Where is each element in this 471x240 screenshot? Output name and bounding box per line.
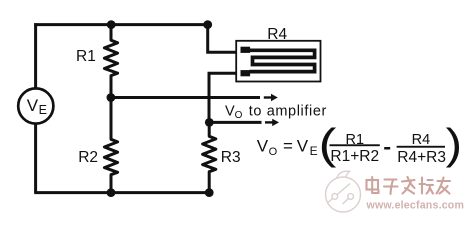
voltage source VE: [18, 88, 53, 123]
svg-text:V: V: [257, 137, 269, 156]
svg-text:E: E: [310, 144, 318, 158]
svg-text:V: V: [297, 137, 309, 156]
wire: gauge top feed: [208, 25, 242, 53]
junction dot: top rail / R1: [107, 20, 116, 29]
svg-text:O: O: [235, 110, 243, 121]
arrow 2: [265, 121, 273, 123]
junction dot: R3 bottom: [205, 188, 214, 197]
arrow 1: [264, 96, 272, 98]
junction dot: R3 top node: [205, 118, 214, 127]
svg-text:O: O: [269, 146, 278, 158]
strain gauge R4 bottom pad: [241, 70, 251, 76]
junction dot: R2 bottom: [107, 188, 116, 197]
strain gauge R4 top pad: [241, 47, 251, 53]
junction dot: top rail end / gauge feed: [203, 20, 212, 29]
resistor R3: [203, 122, 216, 192]
strain gauge R4 serpentine: [250, 50, 315, 71]
svg-text:to amplifier: to amplifier: [249, 103, 327, 119]
svg-text:V: V: [225, 103, 235, 119]
svg-text:R2: R2: [78, 149, 98, 166]
svg-text:www.elecfans.com: www.elecfans.com: [366, 200, 465, 212]
svg-text:R4: R4: [267, 26, 287, 43]
svg-text:): ): [446, 120, 462, 168]
wire: bottom rail: [34, 191, 209, 194]
wire: VO wire 1 (R1/R2 node to amplifier): [111, 96, 260, 99]
minus: [384, 147, 390, 150]
svg-text:R1: R1: [76, 48, 96, 65]
svg-text:E: E: [39, 103, 47, 117]
wire: left wire upper: [34, 23, 37, 88]
strain gauge R4 body: [236, 41, 320, 82]
svg-text:=: =: [283, 137, 293, 156]
resistor R1: [104, 25, 117, 98]
svg-text:R4: R4: [412, 132, 431, 148]
wire: top rail: [34, 23, 208, 26]
svg-text:R1+R2: R1+R2: [330, 148, 379, 165]
svg-text:V: V: [27, 96, 39, 115]
watermark logo circle: [326, 171, 361, 212]
svg-text:R3: R3: [221, 149, 241, 166]
resistor R2: [104, 98, 117, 193]
formula VO = VE ( R1/R1+R2 - R4/R4+R3 ): [257, 120, 462, 169]
watermark chinese text 电子发烧友: [367, 177, 451, 194]
svg-text:R4+R3: R4+R3: [397, 149, 446, 166]
junction dot: R1/R2 node: [107, 93, 116, 102]
wire: left wire lower: [34, 124, 37, 193]
wire: gauge bottom feed: [209, 73, 242, 122]
wire: VO wire 2 (R4/R3 node to amplifier): [209, 121, 261, 124]
